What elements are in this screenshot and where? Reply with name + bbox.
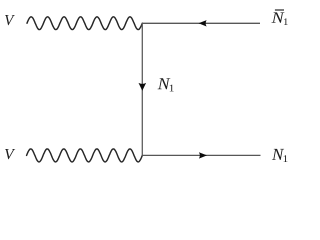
arrow left on top fermion line — [199, 20, 207, 26]
photon line V (top wavy propagator) — [27, 17, 142, 30]
arrow down on internal propagator — [139, 83, 147, 91]
label N1-bar (top right): N — [272, 12, 285, 22]
label N1 (middle): subscript 1 — [170, 85, 174, 92]
label N1-bar: subscript 1 — [284, 18, 288, 25]
photon line V (bottom wavy propagator) — [27, 149, 143, 162]
label V (bottom photon) — [5, 149, 15, 159]
label N1 (bottom right): subscript 1 — [284, 155, 288, 162]
wire: external antifermion line (top right) — [142, 22, 260, 24]
label N1 (bottom right): N — [272, 149, 284, 160]
label N1 (middle, internal line): N — [158, 78, 171, 89]
wire: internal fermion propagator N1 (vertical) — [141, 23, 143, 155]
label V (top photon) — [5, 15, 15, 25]
label N1-bar: overline — [275, 9, 284, 11]
wire: external fermion line (bottom right) — [142, 154, 260, 156]
arrow right on bottom fermion line — [199, 152, 207, 158]
